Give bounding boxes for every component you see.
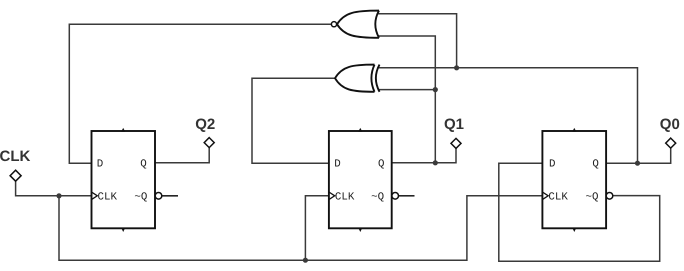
svg-text:Q1: Q1 <box>444 116 464 133</box>
svg-text:Q: Q <box>592 159 598 171</box>
wire: FF1 ~Q stub <box>162 195 178 197</box>
svg-text:D: D <box>97 159 103 171</box>
terminal CLK diamond <box>10 170 21 181</box>
svg-text:~Q: ~Q <box>134 192 147 204</box>
wire: NOR top input from node at (456.6,67.8) <box>378 14 457 68</box>
wire: FF2 Q to Q1 terminal <box>392 149 456 163</box>
svg-text:Q0: Q0 <box>660 116 680 133</box>
svg-text:Q2: Q2 <box>195 116 215 133</box>
svg-text:CLK: CLK <box>98 192 118 204</box>
wire: FF2 ~Q stub <box>399 195 415 197</box>
wire: CLK distribution down and along bottom to FF3 CLK <box>59 196 542 260</box>
flip-flop U3 box <box>542 128 612 232</box>
node: junction Q1 line <box>433 160 438 165</box>
terminal Q2 diamond <box>204 138 214 148</box>
wire: NOR bottom input vertical down to Q1 line <box>378 36 436 163</box>
svg-text:CLK: CLK <box>335 192 355 204</box>
node: junction XOR bottom input <box>433 87 438 92</box>
svg-text:CLK: CLK <box>0 148 30 165</box>
NOR gate (left-facing) <box>331 11 379 38</box>
wire: FF1 Q to Q2 terminal <box>155 148 209 163</box>
wire: NOR output feedback to FF1 D <box>69 24 332 163</box>
wire: XOR top input line to Q0 riser <box>378 68 638 163</box>
svg-text:~Q: ~Q <box>371 192 384 204</box>
wire: FF3 ~Q loop back to FF3 D <box>499 163 660 261</box>
wire: CLK terminal drop <box>16 181 92 196</box>
wire: FF3 Q to Q0 terminal <box>606 148 671 163</box>
svg-text:Q: Q <box>378 159 384 171</box>
node: junction bottom line to FF2 CLK <box>303 258 308 263</box>
svg-text:D: D <box>334 159 340 171</box>
node: junction XOR top input <box>454 65 459 70</box>
wire: XOR bottom input stub <box>378 89 436 91</box>
wire: CLK branch up to FF2 CLK <box>305 196 329 260</box>
flip-flop U1 box <box>92 128 162 232</box>
flip-flop U2 box <box>329 128 399 232</box>
svg-text:Q: Q <box>140 159 146 171</box>
svg-text:D: D <box>549 159 555 171</box>
wire: XOR output to FF2 D <box>252 78 335 163</box>
svg-text:~Q: ~Q <box>586 192 599 204</box>
terminal Q1 diamond <box>451 138 461 148</box>
svg-text:CLK: CLK <box>548 192 568 204</box>
node: junction Q0 line <box>635 161 640 166</box>
terminal Q0 diamond <box>666 138 676 148</box>
XOR gate (left-facing) <box>335 65 380 92</box>
node: junction on CLK line <box>56 193 61 198</box>
